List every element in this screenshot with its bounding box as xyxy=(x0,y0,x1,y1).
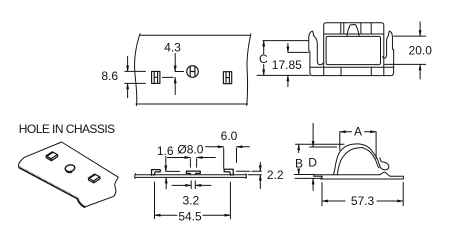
left spring arm xyxy=(309,31,323,67)
dim 17.85 lower arrow xyxy=(287,76,289,87)
chassis strip bottom edge xyxy=(136,103,248,105)
clip body outline xyxy=(324,23,384,67)
iso round hole xyxy=(65,164,76,173)
dim 57.3 right arrow xyxy=(377,200,403,202)
dim 54.5 ext lines xyxy=(155,182,231,219)
svg-text:57.3: 57.3 xyxy=(351,194,375,208)
dim 17.85 upper ext line xyxy=(288,51,308,53)
right break line xyxy=(247,34,251,106)
svg-text:2.2: 2.2 xyxy=(267,168,284,182)
dim Ø8.0 ext lines xyxy=(190,159,196,167)
svg-text:20.0: 20.0 xyxy=(409,43,433,57)
circular hole xyxy=(187,66,199,78)
dim D lower arrow xyxy=(312,179,314,191)
right spring arm xyxy=(383,31,394,67)
top band divider 3 xyxy=(360,23,362,34)
right hook tab xyxy=(224,169,233,175)
svg-text:Ø8.0: Ø8.0 xyxy=(177,142,203,156)
dim 4.3 lower ext dash xyxy=(162,76,173,78)
dim 6.0 left arrow xyxy=(206,146,224,148)
latch dome xyxy=(347,25,359,37)
iso serration base line xyxy=(19,168,78,199)
clip body right edge lower xyxy=(383,67,385,76)
bottom band divider left xyxy=(340,67,342,75)
dim D upper ext line xyxy=(310,146,337,148)
base rivet bump xyxy=(379,172,390,176)
clamp hump inner profile xyxy=(337,148,379,175)
left break line xyxy=(135,34,141,106)
svg-text:D: D xyxy=(308,155,317,169)
clamp hump outer profile xyxy=(334,144,389,175)
dim 4.3 upper ext dash xyxy=(175,71,183,73)
iso rect hole rear xyxy=(46,152,58,161)
svg-text:8.6: 8.6 xyxy=(101,69,118,83)
dim D lower ext line xyxy=(295,177,322,179)
dim 17.85 upper arrow xyxy=(287,44,289,53)
dim 6.0 ext lines xyxy=(224,148,237,169)
dim B lower ext line xyxy=(294,174,314,176)
svg-text:C: C xyxy=(259,52,268,66)
section bar top edge xyxy=(135,174,246,176)
base plate top right xyxy=(390,175,403,177)
top band divider 2 xyxy=(343,23,345,34)
left hook tab xyxy=(152,170,161,176)
dim 20.0 lower arrow xyxy=(419,65,421,80)
right rectangular hole xyxy=(223,72,231,84)
dim 1.6 ext dash xyxy=(166,170,180,172)
dim 1.6 up arrow xyxy=(165,178,167,189)
dim 20.0 upper ext line xyxy=(394,35,426,37)
inner rectangle xyxy=(326,36,380,64)
dim 2.2 upper ext line xyxy=(252,170,262,172)
dim B lower arrow xyxy=(298,169,300,174)
dim 4.3 lower arrow xyxy=(174,78,176,95)
section bar left break xyxy=(134,174,137,179)
base sheet left tip xyxy=(314,175,323,177)
dim 1.6 down arrow xyxy=(165,157,167,172)
svg-text:HOLE IN CHASSIS: HOLE IN CHASSIS xyxy=(19,122,115,136)
svg-text:B: B xyxy=(295,157,303,171)
dim A left arrow xyxy=(340,131,352,133)
dim C upper arrow xyxy=(263,41,265,54)
dim 57.3 left arrow xyxy=(322,200,345,202)
svg-text:1.6: 1.6 xyxy=(157,144,174,158)
bottom band outline xyxy=(310,67,394,75)
dim 6.0 right arrow xyxy=(237,146,250,148)
iso rect hole front xyxy=(88,174,100,183)
dim 8.6 lower arrow xyxy=(127,84,129,98)
dim A right arrow xyxy=(365,131,376,133)
middle T tab xyxy=(186,171,200,174)
dim 2.2 down arrow xyxy=(259,162,261,171)
top band divider 4 xyxy=(370,23,372,34)
top band divider 1 xyxy=(340,23,342,34)
dim B upper ext line xyxy=(296,143,345,145)
iso serrated edge xyxy=(19,166,78,199)
dim Ø8.0 left arrow xyxy=(168,157,191,159)
dim 20.0 upper arrow xyxy=(419,22,421,36)
dim 2.2 lower ext line xyxy=(248,174,261,176)
clip body left edge lower xyxy=(323,67,325,76)
dim 2.2 up arrow xyxy=(259,175,261,189)
dim 54.5 right arrow xyxy=(203,214,230,216)
iso plate corner swoosh xyxy=(78,199,85,207)
dim B upper arrow xyxy=(298,144,300,152)
dim 8.6 upper arrow xyxy=(127,57,129,72)
dim 20.0 lower ext line xyxy=(385,63,426,65)
bottom band top line xyxy=(310,66,394,68)
iso plate outline xyxy=(19,142,119,207)
svg-text:A: A xyxy=(354,124,362,138)
clip top band bottom line xyxy=(324,33,384,35)
dim C upper ext line xyxy=(263,40,308,42)
base plate bottom xyxy=(321,176,404,179)
dim 8.6 ext lines xyxy=(125,71,146,83)
dim 57.3 ext lines xyxy=(322,183,403,206)
dim C lower arrow xyxy=(263,65,265,76)
dim 54.5 left arrow xyxy=(155,214,177,216)
dim 3.2 left arrow xyxy=(172,184,191,186)
svg-text:17.85: 17.85 xyxy=(272,58,302,72)
dim A ext lines xyxy=(340,132,376,159)
dim 4.3 upper arrow xyxy=(174,54,176,72)
right tab ext dash xyxy=(237,170,250,172)
base sheet top edge xyxy=(314,174,379,176)
dim D upper arrow xyxy=(312,123,314,146)
svg-text:54.5: 54.5 xyxy=(178,209,202,223)
chassis strip top edge xyxy=(140,34,251,36)
left rectangular hole xyxy=(152,71,160,83)
bottom band divider right xyxy=(370,67,372,75)
svg-text:6.0: 6.0 xyxy=(221,129,238,143)
dim Ø8.0 right arrow xyxy=(197,157,216,159)
dim C lower ext line xyxy=(257,74,309,76)
dim 3.2 ext lines xyxy=(191,181,195,189)
section bar right break xyxy=(245,174,248,179)
section bar bottom edge xyxy=(135,176,247,178)
svg-text:3.2: 3.2 xyxy=(182,194,199,208)
dim 3.2 right arrow xyxy=(196,184,212,186)
svg-text:4.3: 4.3 xyxy=(164,41,181,55)
